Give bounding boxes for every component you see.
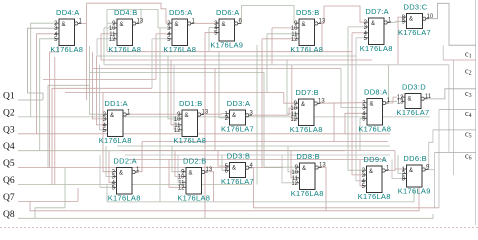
wire c5 feed [433,129,476,131]
wire DD4:B pin9 stub [107,22,113,24]
wire to DD1:B pin12 [174,65,178,130]
svg-text:Q7: Q7 [3,193,15,203]
wire to DD9:A pin5 [360,160,363,186]
svg-text:13: 13 [318,99,325,105]
wire DD6:B out [427,169,435,171]
svg-text:K176LA8: K176LA8 [291,189,324,198]
wire x107 down [106,185,108,202]
wire DD3:C out to c1 [429,3,476,45]
wire to DD6:B pin2 [398,155,403,174]
wire DD3:D pin13 from above [389,65,397,102]
wire to DD3:B pin5 [218,151,226,167]
wire left step [48,46,89,168]
wire DD3:C pin8 drop [398,17,403,64]
wire to DD6:B pin1 [395,151,403,170]
wire to DD3:A pin2 [219,52,226,118]
wire to DD7:B pin11 [287,60,295,114]
wire x352 long vertical to DD9:A pin3 [352,33,363,175]
svg-text:K176LA7: K176LA7 [221,177,254,186]
wire bus B2 [97,55,356,57]
svg-text:DD7:B: DD7:B [295,88,319,97]
svg-text:K176LA8: K176LA8 [99,136,132,145]
svg-text:DD6:A: DD6:A [216,8,240,17]
wire DD6:A out to DD5:B pin9 [241,6,296,24]
svg-text:&: & [120,22,124,28]
wire DD2:B out down [209,172,214,202]
wire DD5:A pin3 [160,27,168,29]
svg-text:&: & [301,102,305,108]
wire DD5:B pin11 [267,33,295,35]
svg-text:K176LA7: K176LA7 [398,28,431,37]
wire to DD6:B pin8 [392,160,403,179]
wire to DD8:B pin9 [264,166,296,168]
svg-text:DD3:D: DD3:D [402,83,426,92]
wire c4 feed [439,108,476,110]
svg-text:10: 10 [427,14,434,20]
svg-text:K176LA8: K176LA8 [163,45,196,54]
wire DD9:A out [389,169,395,171]
svg-text:&: & [110,113,114,119]
wire Q3 run [18,133,390,135]
wire DD6:A pin5 stub [215,32,219,34]
wire Q6 run [18,184,252,186]
wire y88 run [52,87,152,89]
wire Q7 corner up [77,188,79,201]
wire bus C1 [142,141,388,143]
wire DD5:A pin4 drop [155,34,157,80]
wire DD4:B pin11 [101,33,113,35]
svg-text:13: 13 [397,99,404,105]
wire Q5 run [18,167,283,169]
wire to DD7:B pin12 [292,65,295,119]
svg-text:&: & [409,168,413,174]
svg-text:DD2:B: DD2:B [183,157,207,166]
wire DD5:B out to DD7:A pin2 [321,6,365,24]
svg-text:DD1:A: DD1:A [104,99,128,108]
NAND gate DD1:B (K176LA8) [173,99,209,145]
NAND gate DD3:C (K176LA7) [398,3,434,38]
wire to DD1:A pin3 [93,52,104,119]
wire Q8 run [18,214,433,218]
wire DD5:A pin5 [152,38,168,40]
svg-text:DD9:A: DD9:A [363,155,387,164]
wire DD4:B pin12 drop [96,39,98,56]
svg-text:DD2:A: DD2:A [113,157,137,166]
wire bus B6 [89,72,264,167]
svg-text:K176LA8: K176LA8 [360,44,393,53]
wire to DD7:B pin9 [284,93,295,104]
wire to DD1:A pin5 [100,65,104,130]
svg-text:&: & [369,169,373,175]
svg-text:Q4: Q4 [3,142,15,152]
wire Q1 stub [18,99,43,101]
wire to DD2:A pin2 [103,93,113,172]
svg-text:DD8:B: DD8:B [296,152,320,161]
wire to DD1:B pin10 [168,56,178,119]
svg-text:Q6: Q6 [3,176,15,186]
svg-text:Q1: Q1 [3,92,15,102]
wire bottom loop [35,208,65,219]
wire to DD2:A pin3 [106,146,113,176]
wire to DD1:A pin2 [89,85,103,114]
wire DD6:A pin4 stub [215,27,219,29]
wire bus C3 [121,150,395,152]
wire x348 long vertical to DD9:A pin2 [348,27,363,170]
wire to DD2:B pin10 [175,151,182,177]
wire DD1:B pin9 stub [172,113,178,115]
wire vertical x107 [106,9,108,51]
svg-text:&: & [222,22,226,28]
wire DD3:A out to DD7:B pin10 [251,108,295,115]
wire Q1 to DD4:A pin3 [28,28,55,100]
svg-text:DD5:B: DD5:B [296,8,320,17]
wire DD6:A pin4 drop [208,28,210,52]
svg-text:K176LA8: K176LA8 [173,136,206,145]
wire DD5:B pin10 drop [271,28,273,65]
svg-text:13: 13 [206,167,213,173]
wire DD7:A pin4 [352,32,365,34]
svg-text:&: & [232,113,236,119]
wire to DD1:A pin4 [97,56,104,125]
wire Q7 run [18,200,78,202]
svg-text:13: 13 [202,110,209,116]
svg-text:&: & [370,102,374,108]
wire DD5:B pin11 drop [266,34,268,93]
svg-text:12: 12 [178,185,185,191]
svg-text:&: & [189,171,193,177]
NAND gate DD2:A (K176LA8) [108,157,141,203]
wire DD5:B pin12 drop [261,39,263,168]
NAND gate DD9:A (K176LA8) [358,155,391,201]
wire c6 vertical to bottom bus [434,152,436,207]
svg-text:K176LA9: K176LA9 [210,41,243,50]
svg-text:K176LA8: K176LA8 [108,194,141,203]
wire Q2 to DD4:A pin2 [31,23,55,117]
wire Q5 branch up [50,46,59,168]
wire DD3:B out loop [251,168,440,208]
svg-text:12: 12 [174,128,181,134]
wire bus C5 [129,159,385,161]
svg-text:&: & [62,22,66,28]
svg-text:12: 12 [291,37,298,43]
wire DD6:A pin5 drop [204,33,206,219]
wire Q4 run [18,150,345,152]
svg-text:12: 12 [291,181,298,187]
svg-text:K176LA9: K176LA9 [398,187,431,196]
wire DD6:B out [423,169,427,171]
NAND gate DD6:B (K176LA9) [398,154,431,196]
wire DD6:A pin5 [205,32,215,34]
wire to DD1:B pin11 [171,60,178,125]
svg-text:DD7:A: DD7:A [365,7,389,16]
wire DD1:B out to DD3:A pin1 [205,113,226,116]
NAND gate DD5:A (K176LA8) [163,8,196,54]
wire Q3 to DD4:A pin4 [36,34,55,134]
wire branch down x334 [333,103,335,142]
wire to DD8:A pin3 [341,68,363,107]
NAND gate DD5:B (K176LA8) [290,8,326,54]
svg-text:DD4:A: DD4:A [56,8,80,17]
svg-text:&: & [185,113,189,119]
NAND gate DD8:A (K176LA8) [358,88,391,134]
svg-text:K176LA8: K176LA8 [358,192,391,201]
svg-text:&: & [408,97,412,103]
svg-text:DD5:A: DD5:A [169,8,193,17]
svg-text:K176LA8: K176LA8 [290,125,323,134]
svg-text:12: 12 [109,37,116,43]
wire c2 feed [443,59,476,61]
wire c4 vertical from bottom bus [438,109,440,207]
svg-text:13: 13 [319,163,326,169]
svg-text:&: & [175,22,179,28]
wire y9 run right [141,9,160,28]
sheet border bottom [0,227,478,229]
wire DD8:A pin5 [360,117,363,119]
svg-text:12: 12 [290,117,297,123]
wire to DD2:B pin11 [178,155,182,182]
wire bus B4 long [104,65,449,152]
wire vertical x257 [256,45,258,185]
wire DD5:B pin10 [272,27,295,29]
wire DD5:A pin3 drop [159,28,161,202]
wire top run to DD5:A pin2 [87,3,169,23]
wire to DD2:B pin12 [169,160,182,188]
svg-text:&: & [302,166,306,172]
wire DD5:A pin4 [156,33,168,35]
wire left step down [51,88,53,184]
wire DD7:B out to DD8:A pin2 [321,102,363,105]
wire DD4:B pin11 drop [100,34,102,60]
wire bus C4 [125,154,390,156]
NAND gate DD7:B (K176LA8) [290,88,326,134]
wire to DD8:A pin4 [345,113,363,134]
svg-text:DD4:B: DD4:B [114,8,138,17]
wire to DD2:A pin5 [100,155,113,187]
wire c6 feed [435,151,476,153]
wire DD2:A out up [135,142,142,172]
wire DD5:A out to DD6:A pin3 [194,22,220,24]
NAND gate DD7:A (K176LA8) [360,7,393,53]
sheet border right [475,0,477,225]
wire DD6:A pin4 [209,27,215,29]
wire bus C2 [117,145,390,147]
svg-text:13: 13 [137,19,144,25]
NAND gate DD4:B (K176LA8) [108,8,144,54]
svg-text:&: & [409,17,413,23]
wire bottom line y202 [107,190,414,202]
wire bus B5 [93,67,341,69]
NAND gate DD1:A (K176LA8) [99,99,132,145]
svg-text:&: & [232,166,236,172]
svg-text:&: & [371,21,375,27]
wire DD7:A out to DD3:C pin9 [391,21,403,22]
wire y79 run [43,78,156,80]
svg-text:&: & [119,171,123,177]
svg-text:13: 13 [319,19,326,25]
wire DD8:A out to DD3:D pin12 [390,97,398,103]
wire DD1:A out run [130,113,172,115]
svg-text:K176LA8: K176LA8 [290,45,323,54]
wire DD7:A pin3 [348,26,365,28]
wire bus B3 [101,59,372,61]
wire DD4:B pin10 [104,27,113,29]
wire DD5:B pin12 [262,38,295,40]
svg-text:Q2: Q2 [3,108,15,118]
wire x356 long vertical to DD9:A pin4 [356,38,363,181]
svg-text:DD3:B: DD3:B [227,152,251,161]
svg-text:K176LA8: K176LA8 [50,45,83,54]
NAND gate DD3:D (K176LA7) [397,83,432,118]
svg-text:&: & [302,22,306,28]
NAND gate DD4:A (K176LA8) [50,8,83,54]
wire bottom vertical x65 [64,168,66,208]
svg-text:11: 11 [425,94,432,100]
wire DD4:B out loop [107,9,141,23]
wire to DD8:B pin12 [282,155,296,183]
wire to DD8:B pin11 [291,151,296,178]
wire to DD3:B pin6 [222,155,226,170]
wire c5 vertical [429,130,433,170]
wire DD5:A pin5 drop [151,39,153,89]
svg-text:K176LA7: K176LA7 [221,125,254,134]
NAND gate DD3:A (K176LA7) [221,99,254,134]
wire to DD2:B pin9 [172,146,182,172]
wire to DD8:B pin10 [288,146,296,172]
wire DD8:A pin5 drop [359,118,361,150]
wire DD7:A pin5 [356,37,365,39]
svg-text:DD1:B: DD1:B [179,99,203,108]
NAND gate DD6:A (K176LA9) [210,8,243,50]
wire y92 run [65,92,284,94]
svg-text:K176LA8: K176LA8 [358,125,391,134]
svg-text:K176LA7: K176LA7 [397,108,430,117]
wire to DD2:A pin4 [109,151,113,183]
svg-text:DD3:C: DD3:C [403,3,427,12]
wire DD5:B out down branch [321,24,323,52]
wire DD8:B out down [321,167,326,211]
svg-text:DD3:A: DD3:A [227,99,251,108]
svg-text:Q3: Q3 [3,125,15,135]
svg-text:K176LA8: K176LA8 [108,45,141,54]
wire DD3:D out to c3 [426,89,477,99]
NAND gate DD2:B (K176LA8) [177,157,213,203]
wire Q6 branch [54,57,56,185]
NAND gate DD8:B (K176LA8) [291,152,327,198]
wire DD4:B pin12 [97,38,113,40]
wire DD4:B pin10 drop [103,28,105,65]
svg-text:DD6:B: DD6:B [403,154,427,163]
svg-text:Q8: Q8 [3,210,15,220]
wire DD4:A out vertical [86,3,88,100]
wire Q2 run [18,116,430,118]
wire bottom loop 2 [30,186,419,211]
NAND gate DD3:B (K176LA7) [221,152,254,187]
svg-text:K176LA8: K176LA8 [177,194,210,203]
wire Q4 to DD4:A pin5 [40,39,55,151]
wire c1-c2 tie [442,45,444,60]
svg-text:Q5: Q5 [3,159,15,169]
wire DD4:A out [81,23,87,25]
wire bus B1 [107,51,352,53]
svg-text:DD8:A: DD8:A [364,88,388,97]
wire vertical x215 [214,68,216,150]
wire right column vertical [453,60,455,175]
